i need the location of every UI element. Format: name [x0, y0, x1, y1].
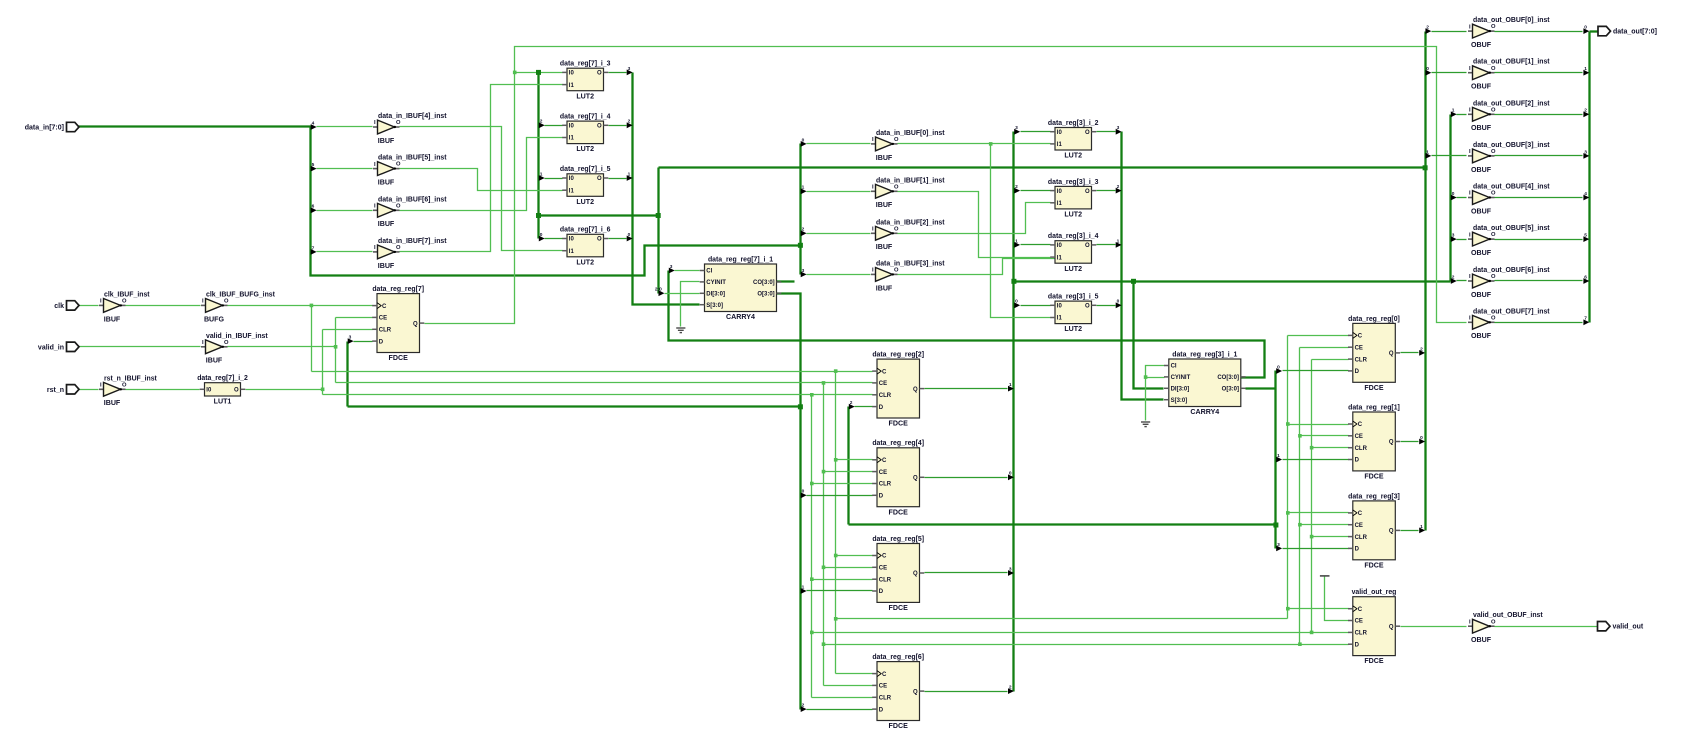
IBUF data_in_IBUF[3]_inst [871, 273, 876, 275]
svg-text:OBUF: OBUF [1471, 41, 1492, 49]
svg-text:CE: CE [879, 470, 887, 476]
svg-text:D: D [1355, 369, 1360, 375]
svg-text:2: 2 [1009, 685, 1012, 691]
wire clk net [79, 305, 99, 307]
svg-text:O: O [1085, 189, 1090, 195]
svg-text:I: I [872, 268, 874, 274]
svg-text:I0: I0 [1057, 243, 1063, 249]
wire vcc to valid_out_reg CE [1325, 577, 1349, 621]
svg-text:CLR: CLR [879, 482, 892, 488]
svg-text:I: I [1469, 191, 1471, 197]
svg-text:FDCE: FDCE [889, 722, 909, 730]
svg-text:1: 1 [1426, 149, 1429, 155]
svg-text:O: O [1491, 619, 1496, 625]
svg-text:0: 0 [802, 489, 805, 495]
svg-text:1: 1 [1452, 108, 1455, 114]
svg-text:1: 1 [1584, 66, 1587, 72]
svg-text:I: I [872, 227, 874, 233]
svg-text:I1: I1 [1057, 142, 1063, 148]
power vcc [1320, 575, 1330, 577]
svg-text:Q: Q [1389, 624, 1394, 630]
svg-text:CO[3:0]: CO[3:0] [753, 280, 775, 286]
wire link y=215 to DI riser [539, 214, 659, 216]
svg-text:LUT2: LUT2 [576, 145, 594, 153]
svg-text:O: O [894, 226, 899, 232]
svg-text:IBUF: IBUF [104, 315, 121, 323]
svg-text:5: 5 [312, 162, 315, 168]
svg-text:CLR: CLR [379, 328, 392, 334]
svg-text:0: 0 [1584, 25, 1587, 31]
svg-text:O: O [396, 162, 401, 168]
wire Q7 tap bus x=538 [537, 73, 539, 239]
wire data_in_IBUF[5] out [400, 169, 563, 191]
svg-text:valid_in: valid_in [38, 344, 64, 351]
svg-text:CLR: CLR [879, 696, 892, 702]
wire clock line to FDCE column [312, 371, 873, 373]
svg-text:0: 0 [628, 232, 631, 238]
svg-text:I0: I0 [569, 71, 575, 77]
svg-text:O: O [1085, 130, 1090, 136]
svg-text:CLR: CLR [879, 393, 892, 399]
svg-text:data_out_OBUF[7]_inst: data_out_OBUF[7]_inst [1473, 308, 1550, 315]
svg-text:2: 2 [1420, 346, 1423, 352]
wire LUT2[7] col O outputs [609, 72, 627, 74]
wire data_in_IBUF[1] out [898, 192, 1051, 258]
svg-text:data_in_IBUF[4]_inst: data_in_IBUF[4]_inst [378, 113, 447, 120]
svg-text:data_reg_reg[5]: data_reg_reg[5] [872, 536, 924, 543]
svg-text:O: O [597, 237, 602, 243]
svg-text:C: C [1358, 334, 1363, 340]
svg-text:Q: Q [1389, 440, 1394, 446]
wire S bus LUT2[7] outputs to CARRY4[7] S[3:0] [633, 73, 700, 305]
svg-text:LUT2: LUT2 [1064, 325, 1082, 333]
wire OBUF input feeds [1432, 31, 1467, 33]
svg-text:S[3:0]: S[3:0] [706, 303, 723, 309]
svg-text:3: 3 [802, 268, 805, 274]
svg-text:I: I [1469, 24, 1471, 30]
svg-text:CE: CE [379, 316, 387, 322]
svg-text:OBUF: OBUF [1471, 207, 1492, 215]
svg-text:1: 1 [1117, 238, 1120, 244]
svg-text:OBUF: OBUF [1471, 83, 1492, 91]
input port clk [67, 301, 80, 310]
svg-text:D: D [1355, 642, 1360, 648]
svg-text:OBUF: OBUF [1471, 636, 1492, 644]
wire CARRY4[3] O output to D rail [1246, 387, 1276, 389]
svg-text:CE: CE [1355, 434, 1363, 440]
wire data_in_IBUF[7] out [400, 85, 563, 252]
svg-text:I1: I1 [569, 249, 575, 255]
wire OBUF input rail V2 x=1450 [1449, 115, 1451, 282]
svg-text:I: I [100, 299, 102, 305]
svg-text:O: O [894, 184, 899, 190]
IBUF data_in_IBUF[1]_inst [871, 190, 876, 192]
svg-text:C: C [1358, 607, 1363, 613]
svg-text:rst_n_IBUF_inst: rst_n_IBUF_inst [104, 375, 158, 382]
svg-text:FDCE: FDCE [889, 420, 909, 428]
svg-text:I1: I1 [569, 136, 575, 142]
wire D feeds from O bus [807, 495, 873, 497]
svg-text:LUT2: LUT2 [1064, 152, 1082, 160]
svg-text:data_out_OBUF[2]_inst: data_out_OBUF[2]_inst [1473, 100, 1550, 107]
svg-text:valid_out_reg: valid_out_reg [1352, 589, 1397, 596]
OBUF data_out_OBUF[3]_inst [1468, 155, 1473, 157]
node arrows D feeds right column [1276, 368, 1282, 374]
wire data_reg_reg[7] Q to OBUF[7] [425, 47, 1467, 324]
node arrows LUT2[7] I0 feeds [539, 122, 545, 128]
svg-text:O: O [1491, 191, 1496, 197]
svg-text:I0: I0 [206, 388, 212, 394]
wire clock line to right FDCE column [836, 618, 1288, 620]
svg-text:O: O [1491, 24, 1496, 30]
svg-text:valid_out: valid_out [1613, 624, 1644, 631]
svg-text:5: 5 [1584, 233, 1587, 239]
wire carry chain CO3 to CI7 [669, 271, 1265, 378]
wire DI feed CARRY4[3] [1134, 282, 1164, 389]
svg-text:0: 0 [1117, 299, 1120, 305]
svg-text:O[3:0]: O[3:0] [757, 292, 774, 298]
svg-text:1: 1 [1015, 238, 1018, 244]
svg-text:2: 2 [1584, 108, 1587, 114]
svg-text:data_in_IBUF[1]_inst: data_in_IBUF[1]_inst [876, 177, 945, 184]
svg-text:DI[3:0]: DI[3:0] [1171, 387, 1190, 393]
IBUF data_in_IBUF[7]_inst [373, 251, 378, 253]
svg-text:D: D [879, 589, 884, 595]
svg-text:data_reg[3]_i_5: data_reg[3]_i_5 [1048, 294, 1099, 301]
svg-text:7: 7 [1584, 316, 1587, 322]
wire CI7 feed [675, 270, 700, 272]
svg-text:data_out_OBUF[6]_inst: data_out_OBUF[6]_inst [1473, 267, 1550, 274]
svg-text:I: I [374, 120, 376, 126]
svg-text:O: O [1491, 274, 1496, 280]
svg-text:data_in[7:0]: data_in[7:0] [25, 125, 64, 132]
svg-text:I0: I0 [1057, 130, 1063, 136]
svg-text:CYINIT: CYINIT [1171, 375, 1191, 381]
svg-text:clk: clk [54, 303, 64, 310]
svg-text:I: I [1469, 274, 1471, 280]
svg-text:1: 1 [802, 584, 805, 590]
svg-text:data_reg_reg[0]: data_reg_reg[0] [1348, 316, 1400, 323]
wire data_out collection bus x=1589 [1588, 32, 1590, 323]
svg-text:FDCE: FDCE [1364, 657, 1384, 665]
node arrows data_in bits 4-7 [311, 124, 317, 130]
wire valid_in net [79, 346, 201, 348]
svg-text:O: O [1491, 315, 1496, 321]
wire riser to data_reg_reg[2] D [847, 407, 849, 525]
svg-text:data_out[7:0]: data_out[7:0] [1613, 29, 1657, 36]
svg-text:C: C [882, 369, 887, 375]
OBUF data_out_OBUF[6]_inst [1468, 280, 1473, 282]
IBUF rst_n_IBUF_inst [99, 388, 104, 390]
svg-text:IBUF: IBUF [104, 399, 121, 407]
svg-text:3: 3 [1015, 125, 1018, 131]
svg-text:data_reg[3]_i_2: data_reg[3]_i_2 [1048, 120, 1099, 127]
FDCE data_reg_reg[6] [877, 662, 920, 721]
svg-text:I1: I1 [1057, 316, 1063, 322]
wire CYINIT CARRY4[7] to ground [681, 282, 700, 327]
svg-text:3: 3 [1277, 542, 1280, 548]
svg-text:data_out_OBUF[0]_inst: data_out_OBUF[0]_inst [1473, 17, 1550, 24]
wire LUT2[3] output bus to CARRY4[3] S[3:0] [1122, 132, 1164, 400]
svg-text:O: O [1491, 66, 1496, 72]
OBUF valid_out_OBUF_inst [1468, 625, 1473, 627]
svg-text:data_reg_reg[7]_i_1: data_reg_reg[7]_i_1 [708, 256, 773, 263]
svg-text:1: 1 [628, 171, 631, 177]
wire CO[3:0] stub CARRY4[7] [777, 280, 795, 282]
wire Q collection bus x=1014 [1012, 132, 1014, 692]
node arrows LUT2[3] outputs [1116, 129, 1122, 135]
svg-text:IBUF: IBUF [876, 284, 893, 292]
svg-text:O: O [234, 388, 239, 394]
svg-text:O: O [1491, 149, 1496, 155]
wire FDCE right Q outputs to rail [1401, 352, 1419, 354]
wire data_in_IBUF[0] out [898, 143, 1051, 145]
svg-text:data_reg_reg[3]_i_1: data_reg_reg[3]_i_1 [1172, 351, 1237, 358]
svg-text:CE: CE [879, 684, 887, 690]
svg-text:2: 2 [802, 227, 805, 233]
svg-text:IBUF: IBUF [876, 154, 893, 162]
node arrows LUT2[3] I0 feeds [1014, 129, 1020, 135]
svg-text:data_reg_reg[7]: data_reg_reg[7] [372, 286, 424, 293]
svg-text:C: C [882, 554, 887, 560]
svg-text:data_reg[7]_i_3: data_reg[7]_i_3 [560, 61, 611, 68]
svg-text:FDCE: FDCE [889, 508, 909, 516]
svg-text:1: 1 [802, 185, 805, 191]
svg-text:3: 3 [349, 335, 352, 341]
svg-text:rst_n: rst_n [47, 387, 64, 394]
svg-text:I: I [374, 162, 376, 168]
CARRY4 data_reg_reg[7]_i_1 [705, 264, 777, 312]
svg-text:IBUF: IBUF [876, 201, 893, 209]
wire data_in_IBUF[3] out [898, 259, 1063, 275]
wire D feeds right FDCE column [1283, 370, 1349, 372]
FDCE data_reg_reg[3] [1353, 501, 1396, 560]
svg-text:6: 6 [312, 204, 315, 210]
svg-text:IBUF: IBUF [378, 137, 395, 145]
svg-text:OBUF: OBUF [1471, 291, 1492, 299]
svg-text:3: 3 [670, 264, 673, 270]
svg-text:OBUF: OBUF [1471, 124, 1492, 132]
IBUF clk_IBUF_inst [99, 304, 104, 306]
wire DI riser x=658 [657, 168, 659, 294]
LUT2 data_reg[7]_i_6 [567, 234, 604, 256]
IBUF valid_in_IBUF_inst [201, 346, 206, 348]
svg-text:D: D [1355, 458, 1360, 464]
svg-text:D: D [879, 707, 884, 713]
wire LUT2[3] col I0 feeds [1021, 131, 1051, 133]
wire FDCE mid Q outputs to bus [925, 388, 1008, 390]
svg-text:I1: I1 [1057, 255, 1063, 261]
wire O bus y=525 [849, 523, 1276, 525]
svg-text:O: O [224, 340, 229, 346]
LUT2 data_reg[7]_i_5 [567, 174, 604, 197]
wire D bus to data_reg_reg[7] [348, 405, 801, 407]
svg-text:I: I [100, 383, 102, 389]
svg-text:data_in_IBUF[6]_inst: data_in_IBUF[6]_inst [378, 196, 447, 203]
LUT2 data_reg[3]_i_3 [1055, 186, 1092, 209]
svg-text:C: C [882, 672, 887, 678]
svg-text:I: I [202, 340, 204, 346]
OBUF data_out_OBUF[0]_inst [1468, 30, 1473, 32]
svg-text:data_reg[7]_i_4: data_reg[7]_i_4 [560, 114, 611, 121]
svg-text:I: I [872, 185, 874, 191]
svg-text:2: 2 [1452, 274, 1455, 280]
svg-text:2: 2 [1117, 184, 1120, 190]
svg-text:S[3:0]: S[3:0] [1171, 398, 1188, 404]
FDCE data_reg_reg[1] [1353, 412, 1396, 471]
svg-text:I: I [1469, 316, 1471, 322]
svg-text:CARRY4: CARRY4 [726, 313, 755, 321]
svg-text:LUT2: LUT2 [576, 258, 594, 266]
svg-text:I: I [872, 137, 874, 143]
svg-text:OBUF: OBUF [1471, 166, 1492, 174]
node arrows data_out bits [1583, 28, 1589, 34]
svg-text:0: 0 [802, 137, 805, 143]
wire IBUF[4..7] input feeds [317, 126, 373, 128]
svg-text:0: 0 [1420, 435, 1423, 441]
svg-text:O[3:0]: O[3:0] [1222, 387, 1239, 393]
svg-text:IBUF: IBUF [876, 243, 893, 251]
svg-text:O: O [396, 245, 401, 251]
svg-text:OBUF: OBUF [1471, 249, 1492, 257]
wire CI/CYINIT CARRY4[3] to ground [1146, 366, 1165, 421]
svg-text:CLR: CLR [1355, 357, 1368, 363]
svg-text:O: O [1491, 107, 1496, 113]
svg-text:clk_IBUF_BUFG_inst: clk_IBUF_BUFG_inst [206, 291, 276, 298]
svg-text:Q: Q [1389, 351, 1394, 357]
wire Q bus y=281 to OBUF group [1014, 280, 1451, 282]
LUT2 data_reg[7]_i_3 [567, 68, 604, 91]
svg-text:3: 3 [1009, 566, 1012, 572]
svg-text:I: I [1469, 149, 1471, 155]
svg-text:data_reg[7]_i_6: data_reg[7]_i_6 [560, 227, 611, 234]
svg-text:FDCE: FDCE [1364, 473, 1384, 481]
svg-text:I0: I0 [569, 237, 575, 243]
svg-text:IBUF: IBUF [378, 179, 395, 187]
svg-text:CO[3:0]: CO[3:0] [1217, 375, 1239, 381]
svg-text:I: I [1469, 619, 1471, 625]
svg-text:CARRY4: CARRY4 [1190, 408, 1219, 416]
wire valid_out OBUF to port [1495, 626, 1598, 628]
svg-text:FDCE: FDCE [1364, 384, 1384, 392]
FDCE data_reg_reg[0] [1353, 323, 1396, 382]
svg-text:data_out_OBUF[4]_inst: data_out_OBUF[4]_inst [1473, 184, 1550, 191]
FDCE data_reg_reg[7] [377, 294, 420, 353]
svg-text:O: O [597, 71, 602, 77]
svg-text:O: O [597, 176, 602, 182]
svg-text:O: O [1491, 232, 1496, 238]
svg-text:1: 1 [540, 171, 543, 177]
svg-text:I: I [374, 245, 376, 251]
svg-text:2: 2 [1015, 184, 1018, 190]
svg-text:valid_in_IBUF_inst: valid_in_IBUF_inst [206, 333, 268, 340]
svg-text:Q: Q [913, 689, 918, 695]
wire CE/valid line to right FDCE column [824, 644, 1349, 646]
svg-text:LUT2: LUT2 [1064, 265, 1082, 273]
svg-text:I1: I1 [569, 83, 575, 89]
FDCE valid_out_reg [1353, 597, 1396, 656]
svg-text:IBUF: IBUF [378, 262, 395, 270]
svg-text:0: 0 [1277, 364, 1280, 370]
node arrows D feeds from O bus [801, 492, 807, 498]
LUT2 data_reg[3]_i_5 [1055, 301, 1092, 324]
input port data_in[7:0] [67, 122, 80, 131]
wire data_in_IBUF[4] out [400, 127, 563, 251]
svg-text:D: D [879, 405, 884, 411]
svg-text:data_in_IBUF[2]_inst: data_in_IBUF[2]_inst [876, 219, 945, 226]
svg-text:I: I [1469, 66, 1471, 72]
svg-text:3: 3 [1452, 233, 1455, 239]
svg-text:Q: Q [913, 387, 918, 393]
svg-text:data_reg_reg[6]: data_reg_reg[6] [872, 654, 924, 661]
svg-text:LUT2: LUT2 [576, 92, 594, 100]
wire OBUF input rail V1 x=1425 [1424, 32, 1426, 531]
svg-text:CYINIT: CYINIT [706, 280, 726, 286]
svg-text:7: 7 [312, 245, 315, 251]
svg-text:I0: I0 [1057, 304, 1063, 310]
LUT2 data_reg[3]_i_2 [1055, 128, 1092, 151]
wire CE line to FDCE column [336, 382, 873, 384]
FDCE data_reg_reg[2] [877, 359, 920, 418]
svg-text:O: O [396, 203, 401, 209]
svg-text:data_out_OBUF[1]_inst: data_out_OBUF[1]_inst [1473, 59, 1550, 66]
node arrows OBUF inputs V1 [1425, 28, 1431, 34]
svg-text:LUT1: LUT1 [214, 398, 232, 406]
CARRY4 data_reg_reg[3]_i_1 [1169, 359, 1241, 407]
FDCE data_reg_reg[5] [877, 544, 920, 603]
BUFG clk_IBUF_BUFG_inst [201, 304, 206, 306]
svg-text:1: 1 [1420, 524, 1423, 530]
svg-text:I: I [374, 204, 376, 210]
wire valid_out_reg Q to OBUF [1401, 626, 1467, 628]
svg-text:2:0: 2:0 [655, 287, 662, 293]
wire IBUF[0..3] input feeds [807, 143, 871, 145]
svg-text:FDCE: FDCE [1364, 561, 1384, 569]
wire LUT2[3] col O outputs [1097, 131, 1116, 133]
svg-text:data_reg_reg[2]: data_reg_reg[2] [872, 352, 924, 359]
LUT1 data_reg[7]_i_2 [205, 383, 241, 396]
svg-text:Q: Q [913, 571, 918, 577]
svg-text:2: 2 [1426, 25, 1429, 31]
svg-text:3: 3 [1117, 125, 1120, 131]
node arrow D feed reg2 [849, 404, 855, 410]
wire LUT2[7] col I0 feeds [545, 125, 563, 127]
svg-text:data_reg_reg[4]: data_reg_reg[4] [872, 440, 924, 447]
svg-text:CI: CI [706, 269, 712, 275]
wire data_in bus vertical x=800 [799, 144, 801, 275]
wire CLR line to FDCE column [323, 394, 873, 396]
svg-text:data_reg[3]_i_4: data_reg[3]_i_4 [1048, 233, 1099, 240]
svg-text:O: O [1085, 243, 1090, 249]
svg-text:C: C [882, 458, 887, 464]
LUT2 data_reg[3]_i_4 [1055, 241, 1092, 264]
svg-text:O: O [224, 299, 229, 305]
svg-text:4: 4 [1584, 191, 1587, 197]
svg-text:data_reg_reg[3]: data_reg_reg[3] [1348, 493, 1400, 500]
svg-text:CE: CE [1355, 523, 1363, 529]
OBUF data_out_OBUF[5]_inst [1468, 238, 1473, 240]
svg-text:0: 0 [1426, 66, 1429, 72]
svg-text:D: D [879, 494, 884, 500]
IBUF data_in_IBUF[2]_inst [871, 232, 876, 234]
output port data_out[7:0] [1598, 26, 1611, 35]
input port rst_n [67, 385, 80, 394]
svg-text:data_reg_reg[1]: data_reg_reg[1] [1348, 404, 1400, 411]
input port valid_in [67, 342, 80, 351]
svg-text:I0: I0 [569, 124, 575, 130]
wire long net y=167.8 [659, 166, 1426, 168]
svg-text:O: O [1085, 304, 1090, 310]
